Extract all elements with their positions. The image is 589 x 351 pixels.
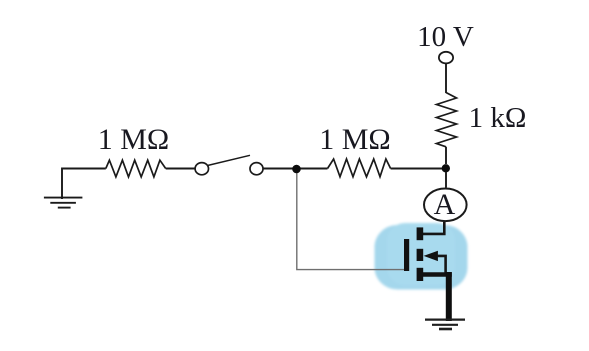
svg-text:1 kΩ: 1 kΩ: [469, 102, 527, 134]
svg-text:A: A: [434, 188, 456, 221]
svg-text:1 MΩ: 1 MΩ: [319, 123, 390, 156]
svg-text:10 V: 10 V: [417, 21, 474, 53]
svg-text:1 MΩ: 1 MΩ: [98, 123, 169, 156]
